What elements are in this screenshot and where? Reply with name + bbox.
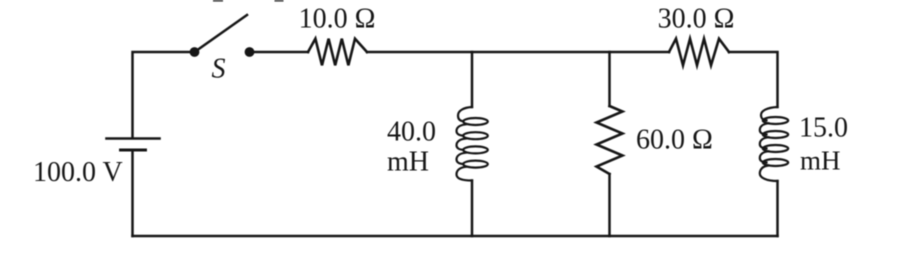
switch S right contact dot [245, 47, 255, 57]
inductor L 15.0 mH [760, 107, 788, 181]
wire: 30-ohm resistor to top-right corner, down to 15mH inductor [729, 52, 778, 107]
svg-text:10.0 Ω: 10.0 Ω [299, 4, 376, 35]
cropped text remnant top left [214, 0, 222, 2]
wire: 15mH inductor to bottom-right corner [776, 181, 779, 236]
svg-text:S: S [212, 54, 226, 85]
resistor R 10.0 ohm [308, 39, 367, 66]
wire: bottom rail [133, 235, 778, 238]
svg-text:40.0: 40.0 [387, 117, 436, 148]
resistor R 30.0 ohm [669, 39, 729, 66]
wire: 10-ohm resistor to 30-ohm resistor (through two junctions) [367, 51, 669, 54]
battery 100.0 V : long positive plate [107, 137, 160, 140]
battery 100.0 V : short negative plate [121, 149, 146, 152]
svg-text:100.0 V: 100.0 V [33, 157, 123, 188]
svg-text:30.0 Ω: 30.0 Ω [658, 4, 735, 35]
svg-text:15.0: 15.0 [799, 113, 848, 144]
cropped text remnant top right [276, 0, 283, 2]
wire: top-left horizontal from battery rail to switch left dot [133, 52, 195, 138]
inductor L 40.0 mH [457, 107, 488, 181]
svg-text:60.0 Ω: 60.0 Ω [636, 125, 713, 156]
svg-text:mH: mH [387, 147, 429, 178]
resistor R 60.0 ohm (vertical) [597, 106, 623, 174]
svg-text:mH: mH [800, 146, 841, 176]
switch S blade [195, 15, 248, 52]
wire: 60-ohm branch bottom [608, 174, 611, 236]
wire: 40mH coil to bottom rail [471, 181, 474, 237]
switch S left contact dot [190, 47, 200, 57]
wire: 40mH branch from top wire down to coil [471, 52, 474, 107]
wire: 60-ohm branch top [608, 52, 611, 106]
wire: battery negative down to bottom rail [131, 150, 134, 236]
wire: switch right dot to 10-ohm resistor [250, 51, 309, 54]
